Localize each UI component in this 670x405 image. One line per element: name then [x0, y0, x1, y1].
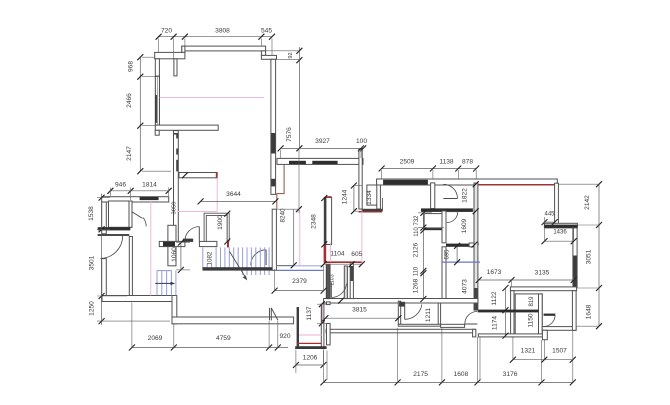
wall: porch pier dark: [297, 307, 299, 349]
dim text 3815: [352, 306, 367, 313]
svg-text:1900: 1900: [217, 215, 224, 230]
svg-text:1137: 1137: [306, 306, 313, 321]
svg-text:920: 920: [279, 333, 290, 340]
pink line vertical (room3644): [216, 178, 218, 212]
dim text 7576: [286, 127, 293, 142]
closet 732 box: [424, 214, 443, 230]
wall: door jamb west (mid door): [326, 264, 330, 298]
dim text 2509: [400, 159, 415, 166]
red wall line vertical: [324, 245, 327, 262]
dim chain 1321/1507: [510, 338, 576, 363]
wall: top wall right wing: [377, 179, 558, 185]
pink line vertical (mid 8240): [299, 210, 301, 265]
wall fill: east wall mid dark: [474, 288, 477, 310]
window: living-room right wall lower: [271, 179, 275, 187]
door: 1609 leaf: [447, 211, 458, 213]
wall: balcony pier 1206 east: [321, 304, 324, 349]
dim text 1334: [366, 190, 373, 205]
dim text 3644: [226, 191, 241, 198]
red mark at wall end: [216, 173, 218, 178]
lintel: dark bar right wing: [383, 180, 428, 185]
dim text 2348: [311, 214, 318, 229]
dim text 1609: [461, 218, 468, 233]
wall: 1609 bottom wall light part: [469, 243, 474, 247]
wall: west outer wall upper (1538): [102, 202, 107, 234]
dim text 605: [351, 251, 362, 258]
svg-text:720: 720: [161, 28, 172, 35]
wall: se outer east wall lower: [572, 291, 576, 331]
dim text 2147: [126, 146, 133, 161]
dim text 445: [544, 212, 555, 218]
wall: midroom west wall (2348): [324, 198, 331, 245]
wall: lower mid wall: [350, 263, 353, 299]
svg-text:3644: 3644: [226, 191, 241, 198]
duct inner box (1334): [367, 185, 378, 205]
stair flight hatch (lower small): [157, 270, 176, 295]
dim text 1648: [586, 304, 593, 319]
window: living-room left wall (triple line): [155, 76, 159, 125]
dim text 4073: [461, 279, 468, 294]
dim text 1138: [439, 159, 454, 166]
dim text 1122: [491, 291, 498, 306]
wall: duct east wall: [377, 179, 381, 209]
lintel: duct bottom dark bar: [361, 209, 383, 212]
dim text 3927: [315, 138, 330, 145]
door: 1609 arc: [447, 212, 458, 223]
wall: se room bottom wall: [478, 334, 545, 337]
dim text 1900: [217, 215, 224, 230]
sill dark below landing door: [183, 239, 193, 242]
door: landing door leaf: [198, 227, 200, 241]
wall: se room west wall: [511, 291, 514, 337]
dim text 92: [288, 52, 294, 58]
svg-text:2142: 2142: [584, 195, 591, 210]
svg-text:3176: 3176: [503, 371, 518, 378]
closet 819/1150 box: [515, 294, 542, 335]
svg-text:110: 110: [414, 266, 420, 276]
wall: stub below top wall (720 ref): [174, 59, 177, 76]
dim text 968: [128, 61, 135, 72]
dim text 8240: [280, 208, 287, 223]
dim chain 1104/605: [321, 261, 365, 267]
svg-text:1138: 1138: [439, 159, 454, 166]
wall: terrace east corner: [473, 329, 476, 337]
door: porch room arc: [465, 311, 478, 324]
wall fill: lower mid wall dark seg: [350, 266, 353, 281]
svg-text:1104: 1104: [330, 251, 345, 258]
svg-text:1538: 1538: [88, 206, 95, 221]
wall fill: east wall dark segment: [573, 256, 577, 288]
svg-text:1250: 1250: [88, 301, 95, 316]
svg-text:1268: 1268: [413, 278, 420, 293]
door: closet 1538 arc: [132, 212, 146, 227]
wall: terrace edge wall: [326, 329, 476, 333]
pink line vertical (hall): [150, 202, 152, 296]
wall: landing wall right part: [199, 241, 217, 246]
dim chain 2069/4759/920: [129, 303, 288, 351]
wall: balcony 1206 bottom dark: [295, 346, 326, 349]
wall: duct east extra line: [381, 198, 383, 209]
wall: entry hall east wall: [129, 237, 132, 296]
door arc (3815 room): [405, 304, 422, 319]
dim 1060: [176, 240, 190, 273]
wall: se outer bottom wall: [542, 327, 576, 331]
shaft 1900 inner: [206, 215, 227, 241]
wall: bathroom west wall (1822): [431, 183, 435, 209]
dim text 1206: [303, 355, 318, 362]
wall: living-room top wall upper run: [182, 46, 266, 51]
door: bathroom leaf: [443, 198, 457, 200]
wall: corridor jamb wall: [442, 211, 446, 243]
dim text 100: [356, 138, 367, 145]
sill: dark bar below closet: [98, 227, 131, 230]
dim text 1137: [306, 306, 313, 321]
dim chain 946/1814: [107, 188, 171, 201]
dim text 1268: [413, 278, 420, 293]
dim 1436: [542, 229, 577, 245]
stair small flight mid line with arrow: [155, 282, 175, 285]
dim text 1104: [330, 251, 345, 258]
svg-text:2379: 2379: [292, 278, 307, 285]
wall: living-room top-left step: [182, 46, 185, 52]
dim text 819: [529, 296, 535, 307]
door arc (1150 room): [544, 315, 556, 327]
dim 1900: [224, 211, 230, 245]
svg-text:92: 92: [288, 52, 294, 58]
lintel: dark bar on bedroom2 top wall: [140, 197, 159, 200]
dim text 2175: [413, 371, 428, 378]
dim 445: [542, 217, 558, 225]
dim text 732: [414, 215, 420, 226]
red wall line horizontal: [324, 261, 362, 263]
svg-text:968: 968: [128, 61, 135, 72]
dim text 1211: [425, 308, 432, 323]
dim text 1673: [487, 269, 502, 276]
svg-text:1122: 1122: [491, 291, 498, 306]
lintel: corridor dark bar 1: [289, 161, 306, 164]
dim 3815: [322, 315, 401, 321]
lintel: dark bar in landing wall: [163, 242, 175, 247]
closet 1538 box: [109, 201, 133, 227]
wall fill: dark band between 819 and 1150: [478, 310, 539, 313]
dim 1137: [317, 301, 330, 326]
svg-text:110: 110: [414, 227, 420, 237]
dim 8240: [277, 206, 302, 268]
wall: bedroom2 top wall (946/1814): [102, 197, 169, 202]
svg-text:3501: 3501: [88, 255, 95, 270]
svg-text:605: 605: [351, 251, 362, 258]
dim 1244: [351, 183, 363, 215]
svg-text:1608: 1608: [454, 371, 469, 378]
dim text 2069: [148, 335, 163, 342]
wall: duct west wall (100): [359, 149, 362, 209]
svg-text:819: 819: [529, 296, 535, 307]
svg-text:1082: 1082: [207, 251, 214, 265]
red line under top wall: [474, 184, 557, 186]
svg-text:100: 100: [356, 138, 367, 145]
door: stair door leaf: [265, 250, 267, 265]
pink line vertical (duct): [361, 210, 363, 263]
svg-text:1211: 1211: [425, 308, 432, 323]
stair walk line diagonal with arrow: [230, 252, 248, 281]
dim chain left 1538/3501/1250: [97, 194, 170, 326]
dim 7576 and 92: [266, 47, 302, 213]
dim text 3135: [535, 270, 550, 277]
dim text 545: [261, 28, 272, 35]
wall: 445 bar: [544, 223, 577, 228]
dim text 920: [279, 333, 290, 340]
svg-text:2175: 2175: [413, 371, 428, 378]
lintel: corridor dark bar 2: [312, 161, 337, 164]
svg-text:3808: 3808: [215, 28, 230, 35]
svg-text:1814: 1814: [142, 182, 157, 189]
svg-text:545: 545: [261, 28, 272, 35]
wall: step wall down to porch: [172, 296, 177, 324]
wall: room3815 bottom wall: [398, 324, 440, 326]
red line 1206: [297, 342, 322, 344]
svg-text:695: 695: [445, 249, 451, 260]
dim text 946: [115, 182, 126, 189]
pink line vertical (1137): [321, 304, 323, 323]
dim chain top 720/3808/545: [156, 34, 275, 59]
svg-text:1334: 1334: [366, 190, 373, 205]
dim chain 1673/3135: [476, 277, 577, 287]
dim text 3051: [585, 249, 592, 264]
svg-text:3050: 3050: [171, 202, 177, 215]
pink line vertical (2348 wall): [329, 243, 331, 263]
svg-text:3135: 3135: [535, 270, 550, 277]
svg-text:2147: 2147: [126, 146, 133, 161]
dim 2379: [272, 266, 327, 293]
dim chain 732/110/2126/110/1268: [418, 210, 444, 302]
red jamb mark near shaft: [227, 241, 229, 248]
wall: long bottom wall mid: [324, 299, 478, 304]
lintel: dark bar below bathroom: [421, 208, 473, 212]
svg-text:3051: 3051: [585, 249, 592, 264]
red line under duct: [359, 211, 383, 213]
dim text 1608: [454, 371, 469, 378]
dim text 1150: [527, 313, 534, 328]
blue beam line (1609): [442, 261, 480, 263]
svg-text:2466: 2466: [126, 93, 133, 108]
dim text 110a: [414, 227, 420, 237]
wall: shelf wall below living room: [155, 125, 218, 130]
svg-text:1648: 1648: [586, 304, 593, 319]
dim text 720: [161, 28, 172, 35]
dim chain left 968/2466/2147: [137, 54, 171, 174]
svg-text:1206: 1206: [303, 355, 318, 362]
wall: midroom top cap red: [325, 196, 332, 198]
window: living-room right wall upper: [271, 133, 275, 154]
svg-text:1174: 1174: [491, 316, 498, 331]
wall: room-3644 top wall: [179, 173, 217, 178]
pink line horizontal (room3644): [178, 210, 217, 212]
svg-text:8240: 8240: [280, 208, 287, 223]
wall: hall/stair west wall upper: [174, 131, 179, 242]
wall: porch bottom wall: [172, 317, 294, 324]
dim text 1436: [553, 230, 567, 236]
svg-text:1673: 1673: [487, 269, 502, 276]
dim chain 3927/100: [278, 145, 367, 158]
wall: right wing east jog: [555, 183, 559, 224]
svg-text:1103: 1103: [330, 274, 336, 285]
wall: corridor west wall lower: [442, 247, 446, 300]
svg-text:445: 445: [544, 212, 555, 218]
svg-text:2348: 2348: [311, 214, 318, 229]
flue slot (brown): [277, 160, 284, 209]
svg-text:3927: 3927: [315, 138, 330, 145]
svg-text:1822: 1822: [461, 188, 468, 203]
wall: se corner notch: [542, 330, 547, 339]
red dot at wall junction: [477, 243, 479, 245]
wall: corridor top wall (3927): [277, 158, 363, 164]
wall: long east wall mid block: [474, 183, 478, 310]
dim text 2466: [126, 93, 133, 108]
svg-text:1609: 1609: [461, 218, 468, 233]
wall: se room top wall: [510, 287, 576, 291]
wall: room3815 east wall: [438, 299, 440, 325]
door: entry arc: [100, 236, 122, 258]
wall: hall west wall jog lower: [168, 225, 176, 265]
svg-text:7576: 7576: [286, 127, 293, 142]
dim text 1103: [330, 274, 336, 285]
wall: stair east wall: [272, 209, 276, 270]
svg-text:1150: 1150: [527, 313, 534, 328]
dim text 3176: [503, 371, 518, 378]
dim text 2126: [413, 242, 420, 257]
wall: room3815 west wall piece lower: [327, 323, 331, 345]
wall: living-room left wall upper: [155, 59, 159, 76]
svg-text:3815: 3815: [352, 306, 367, 313]
dim text 1814: [142, 182, 157, 189]
dim chain bottom 2175/1608/3176: [320, 327, 575, 385]
svg-text:1507: 1507: [552, 348, 567, 355]
dim text 1060: [171, 247, 178, 262]
door leaf dark (1150 room): [544, 314, 556, 316]
wall: room3815 west wall piece upper: [327, 302, 331, 305]
wall: bottom wall piece east of 1211 room: [441, 324, 465, 327]
shaft 1900 outer: [204, 213, 229, 241]
dim text 1321: [521, 348, 536, 355]
wall: living-room top-left lower run: [155, 52, 185, 58]
door: bathroom arc: [443, 184, 457, 198]
door: landing door arc: [185, 227, 199, 241]
svg-text:2509: 2509: [400, 159, 415, 166]
dim text 1244: [342, 189, 349, 204]
dim ticks on east wall 1822/1609: [472, 181, 479, 247]
dim text 1538: [88, 206, 95, 221]
dim chain 1122/1174: [503, 285, 509, 339]
svg-text:4073: 4073: [461, 279, 468, 294]
dim text 2142: [584, 195, 591, 210]
stair flight hatch (upper): [203, 247, 269, 275]
stair blue landing lines: [276, 266, 323, 271]
svg-text:1321: 1321: [521, 348, 536, 355]
wall: porch jog stub: [270, 308, 279, 321]
wall: living-room top-right step down: [261, 51, 276, 59]
pink line horizontal (balcony): [299, 334, 322, 336]
dim 2348 ticks: [321, 195, 327, 247]
dim text 1822: [461, 188, 468, 203]
dim text 1174: [491, 316, 498, 331]
svg-text:946: 946: [115, 182, 126, 189]
dim text 695: [445, 249, 451, 260]
door arc (mid door): [331, 284, 346, 298]
dim text 1507: [552, 348, 567, 355]
stair landing dark edge: [203, 267, 273, 270]
wall: left wall segment below shelf: [155, 130, 159, 135]
dim 1206: [293, 350, 327, 374]
svg-text:878: 878: [462, 159, 473, 166]
svg-text:732: 732: [414, 215, 420, 226]
svg-text:1060: 1060: [171, 247, 178, 262]
svg-text:1436: 1436: [553, 230, 567, 236]
tick on room-3644 wall: [182, 172, 188, 178]
wall fill: midroom west dark: [324, 198, 326, 245]
svg-text:4759: 4759: [216, 335, 231, 342]
wall: door jamb east (mid door): [344, 266, 347, 299]
wall: west outer wall below entry door: [102, 259, 107, 302]
svg-text:2069: 2069: [148, 335, 163, 342]
wall: 1609 bottom wall dark: [446, 244, 469, 247]
red mark on wall junction: [439, 300, 445, 302]
wall: entry hall bottom wall: [102, 296, 172, 302]
pink line horizontal (living): [160, 96, 264, 98]
dim text 110b: [414, 266, 420, 276]
svg-text:1244: 1244: [342, 189, 349, 204]
door: entry leaf: [98, 234, 130, 236]
door: stair door arc: [251, 250, 266, 265]
sill: dark bottom of 732 box: [424, 228, 443, 230]
svg-text:2126: 2126: [413, 242, 420, 257]
dim line 3644: [198, 198, 279, 204]
dim chain right 2142/3051/1648: [559, 181, 603, 329]
door jamb dark (3815 room): [399, 302, 405, 307]
wall: living-room right wall: [271, 59, 276, 194]
tick on bottom wall: [338, 298, 344, 304]
dim text 2379: [292, 278, 307, 285]
wall: east outer wall: [573, 228, 577, 288]
dim text 3050: [171, 202, 177, 215]
wall fill: hall west wall dark segments: [174, 133, 179, 171]
stair label box 1082: [206, 248, 215, 266]
wall: landing wall left part: [159, 241, 185, 246]
door leaf (3815 room): [404, 302, 406, 319]
dim text 1250: [88, 301, 95, 316]
dim chain 2509/1138/878: [379, 166, 480, 180]
dim 695: [454, 243, 460, 265]
dim text 3808: [215, 28, 230, 35]
door leaf (mid door): [330, 282, 332, 297]
dim text 3501: [88, 255, 95, 270]
wall: room3815 west jamb: [398, 301, 400, 324]
dim text 4759: [216, 335, 231, 342]
dim text 878: [462, 159, 473, 166]
